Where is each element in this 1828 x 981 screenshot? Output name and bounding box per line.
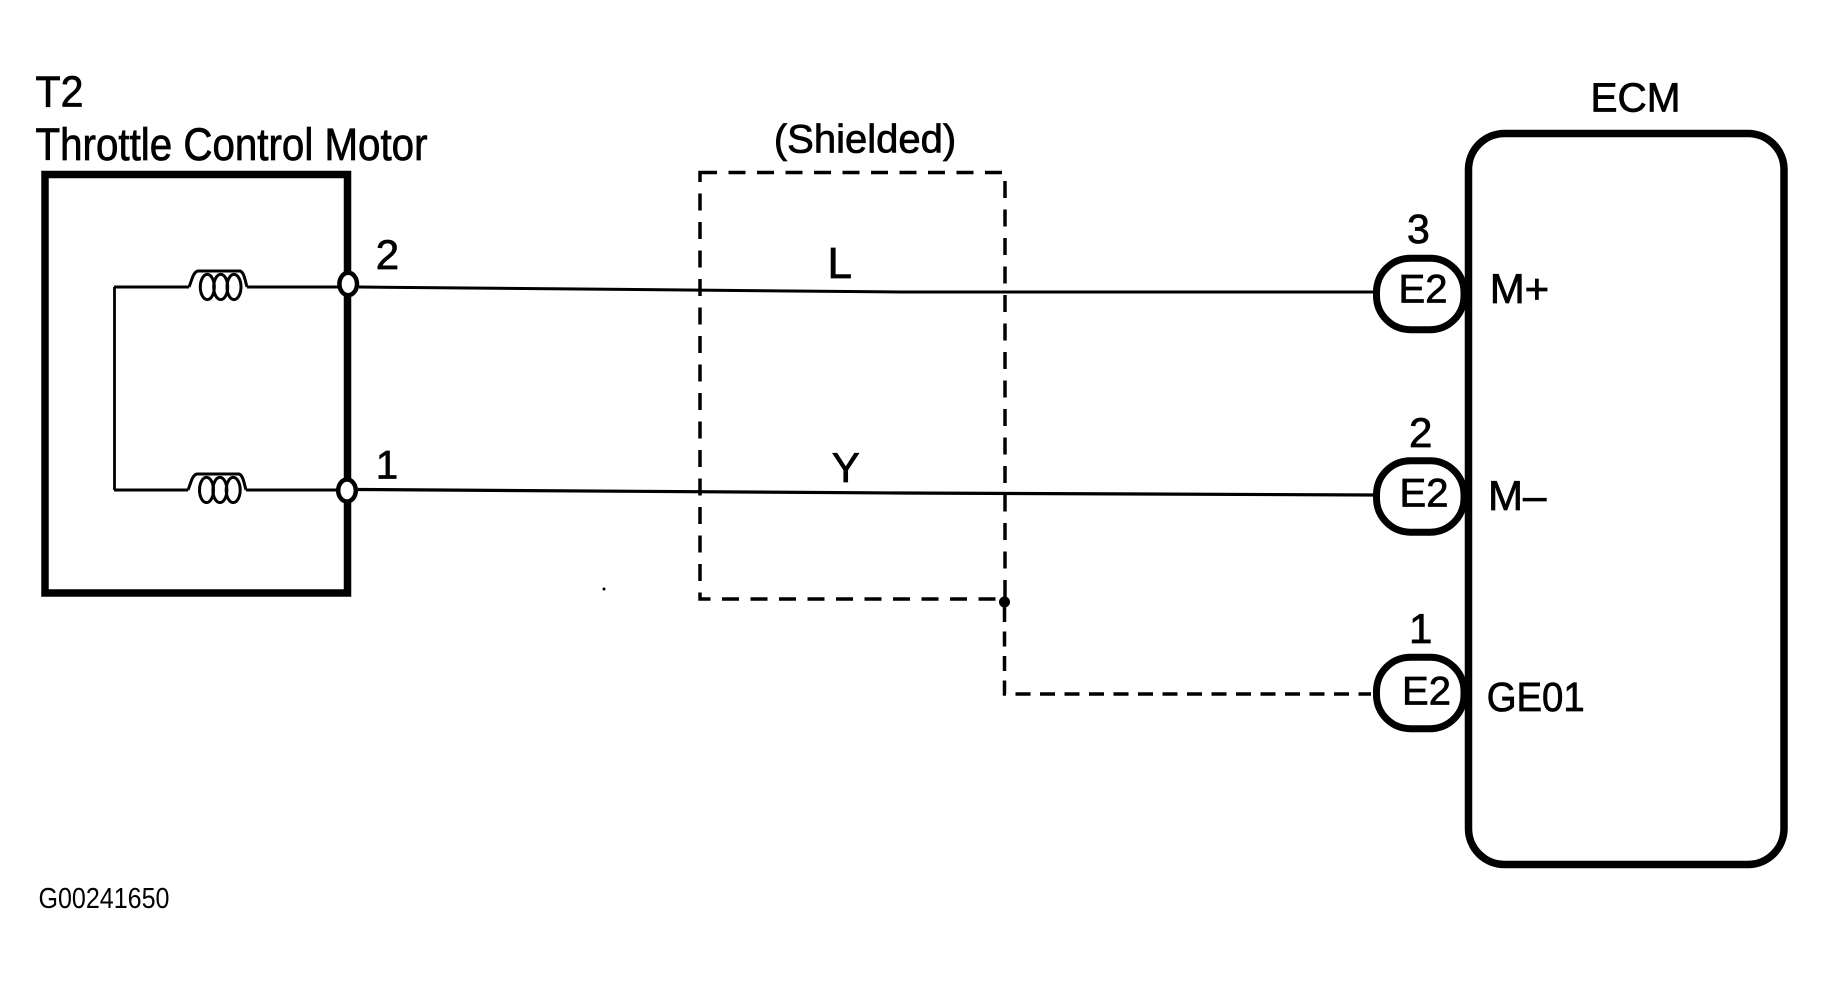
svg-text:3: 3: [1407, 206, 1430, 252]
svg-text:E2: E2: [1400, 472, 1449, 516]
svg-text:E2: E2: [1402, 670, 1451, 714]
svg-text:M+: M+: [1490, 265, 1550, 312]
svg-text:T2: T2: [36, 68, 84, 117]
svg-text:E2: E2: [1399, 268, 1448, 312]
svg-text:ECM: ECM: [1591, 75, 1681, 121]
svg-text:GE01: GE01: [1487, 674, 1585, 720]
svg-text:Y: Y: [832, 444, 860, 491]
svg-text:Throttle Control Motor: Throttle Control Motor: [36, 119, 428, 170]
svg-text:L: L: [828, 239, 852, 288]
svg-text:2: 2: [376, 231, 399, 278]
svg-text:G00241650: G00241650: [39, 883, 170, 915]
svg-text:M–: M–: [1488, 472, 1547, 519]
svg-text:2: 2: [1409, 409, 1432, 456]
svg-text:1: 1: [1409, 605, 1432, 652]
svg-text:(Shielded): (Shielded): [774, 117, 956, 161]
svg-text:1: 1: [376, 444, 398, 488]
